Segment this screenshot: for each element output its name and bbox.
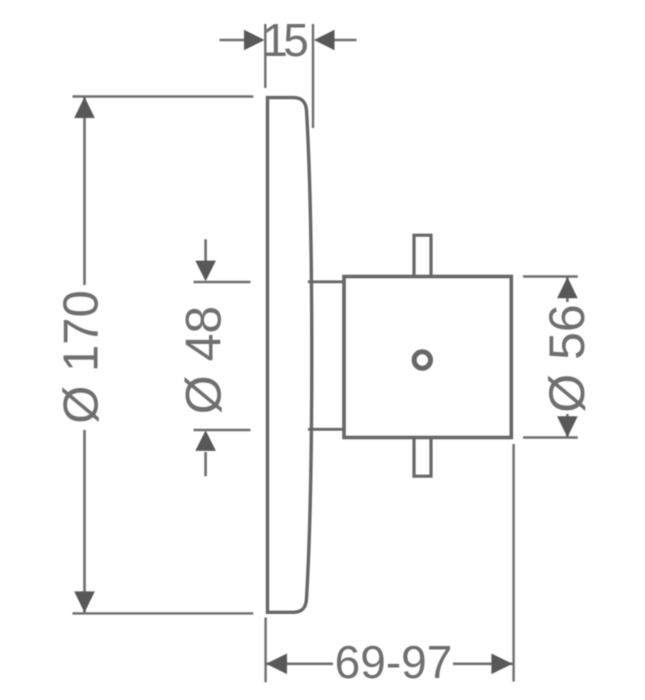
svg-text:Ø 170: Ø 170 bbox=[55, 290, 109, 423]
svg-text:Ø 48: Ø 48 bbox=[176, 306, 232, 414]
svg-text:69-97: 69-97 bbox=[335, 636, 453, 688]
svg-text:Ø 56: Ø 56 bbox=[539, 304, 595, 412]
svg-text:5: 5 bbox=[283, 14, 309, 66]
